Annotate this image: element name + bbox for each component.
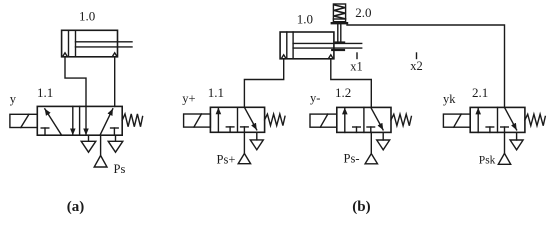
valve 1.1b diagonal arrow — [244, 107, 256, 130]
cam bar on rod — [332, 49, 344, 51]
valve 1.1b spring — [265, 114, 285, 126]
svg-text:1.0: 1.0 — [297, 12, 313, 27]
valve 1.2 division — [363, 107, 365, 132]
valve 1.2 blocked port T left — [356, 127, 358, 132]
valve 1.1b up arrow — [217, 108, 219, 133]
piston rod (b) — [293, 42, 362, 44]
valve 2.1 diagonal arrow — [505, 107, 517, 129]
piston rod (a) — [76, 41, 133, 43]
piston (b) — [286, 32, 288, 59]
limit unit 2.0 base bar — [332, 22, 347, 24]
signal wire 2.0 to valve 2.1 — [347, 25, 505, 107]
supply Ps+ — [243, 132, 245, 153]
valve 1.1a exhaust 1 — [88, 135, 90, 141]
svg-text:Ps-: Ps- — [344, 152, 360, 166]
valve 1.2 spring — [391, 114, 411, 126]
wire right port (b) to valve 1.2 — [331, 59, 372, 108]
piston (a) — [68, 30, 70, 57]
valve 1.1a right diagonal arrow — [100, 109, 113, 135]
valve 1.2 diagonal arrow — [371, 107, 383, 129]
supply Ps (a) — [100, 135, 102, 155]
wire left port (b) to valve 1.1 — [244, 59, 283, 108]
valve 1.2 exhaust — [382, 132, 384, 140]
x2 tick — [416, 53, 418, 59]
solenoid y- — [310, 114, 337, 127]
svg-text:Ps: Ps — [114, 162, 126, 176]
valve 2.1 exhaust — [516, 132, 518, 140]
svg-text:Psk: Psk — [479, 154, 496, 166]
valve 1.2 body — [337, 107, 391, 132]
port mark left (a) — [63, 53, 68, 57]
wire left port to valve 1.1a — [65, 57, 86, 107]
valve 1.1b exhaust — [256, 132, 258, 140]
valve 1.1b body — [210, 107, 264, 132]
valve 2.1 division — [497, 107, 499, 132]
valve 1.1a division — [79, 106, 81, 135]
supply Ps- — [370, 132, 372, 153]
svg-text:y: y — [10, 92, 17, 106]
valve 1.1a body — [37, 106, 122, 135]
valve 1.1a blocked port T left — [44, 128, 46, 135]
solenoid y (a) — [10, 114, 37, 127]
svg-text:yk: yk — [443, 92, 456, 106]
svg-text:2.1: 2.1 — [472, 85, 488, 100]
valve 1.1a spring — [122, 114, 142, 127]
svg-text:1.1: 1.1 — [37, 85, 53, 100]
valve 1.1a down arrow 2 — [85, 106, 87, 135]
limit unit 2.0 stem — [337, 24, 339, 41]
valve 1.1a exhaust 2 — [115, 135, 117, 141]
svg-text:2.0: 2.0 — [355, 5, 371, 20]
valve 1.2 up arrow — [344, 108, 346, 133]
cylinder 1.0 body (b) — [280, 32, 334, 59]
svg-text:(b): (b) — [352, 199, 370, 215]
svg-text:x2: x2 — [410, 59, 423, 73]
svg-text:1.2: 1.2 — [335, 85, 351, 100]
x1 tick — [356, 53, 358, 59]
solenoid yk — [443, 114, 470, 127]
svg-text:(a): (a) — [67, 199, 85, 215]
svg-text:x1: x1 — [350, 59, 363, 73]
svg-text:1.1: 1.1 — [208, 85, 224, 100]
valve 2.1 spring — [525, 114, 545, 126]
cylinder 1.0 body (a) — [62, 30, 118, 57]
supply Psk — [504, 132, 506, 153]
valve 1.1b blocked port T right — [243, 127, 245, 132]
valve 1.2 blocked port T right — [370, 127, 372, 132]
valve 1.1b blocked port T left — [229, 127, 231, 132]
svg-text:1.0: 1.0 — [79, 8, 95, 23]
valve 2.1 body — [470, 107, 525, 132]
limit unit 2.0 body — [333, 4, 345, 22]
solenoid y+ — [184, 114, 211, 127]
port mark right (b) — [328, 55, 333, 59]
port mark right (a) — [112, 53, 117, 57]
valve 1.1b division — [237, 107, 239, 132]
wire right port to valve 1.1a — [114, 57, 116, 107]
port mark left (b) — [281, 55, 286, 59]
valve 2.1 blocked port T left — [489, 127, 491, 132]
valve 1.1a down arrow 1 — [72, 106, 74, 135]
valve 1.1a blocked port T right — [113, 128, 115, 135]
svg-text:y-: y- — [310, 91, 320, 105]
svg-text:y+: y+ — [182, 92, 195, 106]
valve 1.1a left diagonal arrow — [45, 109, 62, 135]
limit unit 2.0 spring — [334, 5, 345, 19]
valve 2.1 up arrow — [477, 108, 479, 133]
valve 2.1 blocked port T right — [504, 127, 506, 132]
svg-text:Ps+: Ps+ — [217, 152, 236, 166]
limit unit 2.0 foot — [336, 41, 345, 43]
